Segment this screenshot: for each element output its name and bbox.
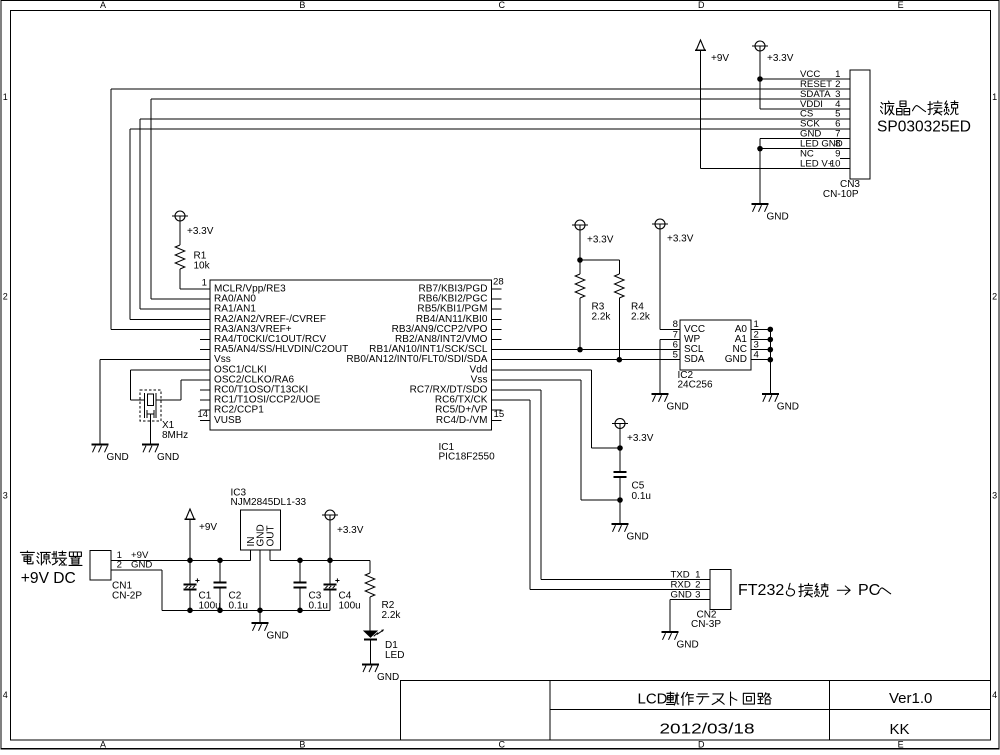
CN3 pin number 10 bbox=[830, 158, 841, 169]
wire CN3 pin10 segment bbox=[840, 168, 850, 170]
wire Vdd net bbox=[492, 370, 621, 448]
wire R2 top bbox=[369, 560, 371, 573]
crystal X1 left plate bbox=[144, 393, 146, 407]
CN3 pin number 6 bbox=[835, 119, 840, 130]
svg-text:10: 10 bbox=[830, 158, 841, 169]
junction dot gnd rail C3 bbox=[297, 608, 303, 614]
label C5 value 0.1u bbox=[632, 491, 651, 502]
label R2 value 2.2k bbox=[382, 610, 402, 621]
ground symbol below C5 bbox=[612, 524, 629, 532]
svg-text:VUSB: VUSB bbox=[214, 415, 242, 426]
svg-text:2.2k: 2.2k bbox=[382, 610, 402, 621]
connector CN3 body bbox=[850, 70, 870, 179]
svg-text:GND: GND bbox=[131, 560, 152, 571]
CN3 pin name LED GND bbox=[800, 139, 843, 150]
IC3 rotated pin label OUT bbox=[266, 525, 277, 546]
CN3 reference label bbox=[840, 179, 860, 190]
title version Ver1.0 bbox=[889, 690, 932, 707]
CN3 pin9 NC stub bbox=[840, 158, 850, 160]
frame column label A bottom bbox=[100, 739, 106, 749]
CN3 pin name GND bbox=[800, 129, 821, 140]
wire +9V to CN3 pin10 vertical bbox=[700, 50, 702, 168]
label D1 bbox=[385, 640, 398, 651]
junction dot +9V rail C1 bbox=[187, 558, 193, 564]
crystal X1 body bbox=[147, 394, 153, 406]
frame column label E bottom bbox=[898, 739, 904, 749]
capacitor C2 bbox=[213, 560, 226, 610]
ground symbol below IC2 WP bbox=[652, 394, 669, 402]
CN3 pin number 9 bbox=[835, 149, 840, 160]
CN3 pin name SCK bbox=[800, 119, 820, 130]
label +3.3V at R3 bbox=[587, 235, 614, 246]
IC1 left pin stub row 11 bbox=[200, 389, 210, 391]
title text LCD animation test circuit bbox=[638, 691, 772, 708]
power symbol +3.3V at C5 bbox=[612, 419, 628, 429]
svg-text:2: 2 bbox=[3, 291, 8, 301]
wire LED to gnd bbox=[370, 639, 372, 663]
svg-text:CN-2P: CN-2P bbox=[112, 590, 142, 601]
junction dot bus A1 bbox=[768, 337, 774, 343]
label X1 value 8MHz bbox=[162, 430, 188, 441]
svg-text:+3.3V: +3.3V bbox=[667, 234, 694, 245]
IC1 value label PIC18F2550 bbox=[439, 452, 496, 463]
frame column label A top bbox=[100, 0, 106, 10]
IC1 right pin stub RB4/AN11/KBI0 bbox=[492, 318, 502, 320]
wire R4 bottom to SDA bbox=[618, 298, 620, 360]
wire +9V symbol down bbox=[189, 519, 191, 560]
IC1 pin number 28 bbox=[493, 277, 504, 288]
connector CN1 body bbox=[90, 551, 111, 581]
IC3 reference label bbox=[231, 487, 247, 498]
crystal X1 right plate bbox=[155, 393, 157, 407]
IC2 pin label NC bbox=[733, 344, 747, 355]
CN3 pin number 2 bbox=[835, 79, 840, 90]
IC1 right pin stub RB5/KBI1/PGM bbox=[492, 308, 502, 310]
svg-text:PC: PC bbox=[858, 582, 880, 599]
IC2 pin number 8 bbox=[673, 319, 678, 330]
svg-text:2.2k: 2.2k bbox=[631, 312, 651, 323]
wire IC2 WP to gnd bbox=[660, 340, 680, 394]
svg-text:2: 2 bbox=[992, 291, 997, 301]
svg-text:2: 2 bbox=[117, 560, 122, 571]
IC1 reference label bbox=[439, 442, 455, 453]
label R2 bbox=[382, 600, 395, 611]
svg-text:0.1u: 0.1u bbox=[632, 491, 651, 502]
CN3 pin number 3 bbox=[835, 89, 840, 100]
CN3 pin name VDDI bbox=[800, 99, 823, 110]
wire +3.3V symbol down bbox=[329, 520, 331, 560]
CN2 pin name TXD bbox=[671, 569, 690, 580]
IC2 pin number 3 bbox=[754, 339, 759, 350]
IC1 pin label Vdd bbox=[470, 364, 488, 375]
svg-text:RA5/AN4/SS/HLVDIN/C2OUT: RA5/AN4/SS/HLVDIN/C2OUT bbox=[214, 344, 348, 355]
frame row label 2 left bbox=[3, 291, 8, 301]
svg-text:GND: GND bbox=[667, 402, 689, 413]
IC1 pin label RA3/AN3/VREF+ bbox=[214, 324, 292, 335]
svg-text:Ver1.0: Ver1.0 bbox=[889, 690, 932, 707]
ground symbol below D1 bbox=[362, 664, 379, 672]
IC3 rotated pin label IN bbox=[246, 537, 257, 547]
IC IC2 body 24C256 bbox=[680, 320, 751, 370]
svg-text:C: C bbox=[499, 0, 506, 10]
IC2 pin label SDA bbox=[684, 354, 705, 365]
wire CN3 pin1 VCC bbox=[760, 78, 850, 80]
IC1 right pin stub RB3/AN9/CCP2/VPO bbox=[492, 328, 502, 330]
svg-text:4: 4 bbox=[754, 350, 760, 361]
title block divider vertical 1 bbox=[549, 681, 551, 741]
wire branch to R4 bbox=[580, 260, 619, 274]
FT232 connection note bbox=[738, 582, 891, 599]
wire CN3 gnd vertical bbox=[759, 139, 761, 203]
frame row label 2 right bbox=[992, 291, 997, 301]
svg-text:GND: GND bbox=[377, 672, 399, 683]
connector CN2 body bbox=[710, 570, 731, 610]
svg-text:E: E bbox=[898, 739, 904, 749]
IC1 pin label RC1/T1OSI/CCP2/UOE bbox=[214, 395, 321, 406]
IC1 right pin stub RC5/D+/VP bbox=[492, 409, 502, 411]
CN2 pin name RXD bbox=[671, 579, 691, 590]
svg-text:NJM2845DL1-33: NJM2845DL1-33 bbox=[231, 497, 307, 508]
frame column label C bottom bbox=[499, 739, 506, 749]
wire IC2 NC to bus bbox=[751, 349, 770, 351]
label R3 bbox=[592, 302, 605, 313]
label C3 bbox=[309, 591, 322, 602]
wire RESET net bbox=[111, 89, 850, 329]
junction dot SCL/R3 bbox=[577, 347, 583, 353]
IC1 pin label VUSB bbox=[214, 415, 242, 426]
junction dot gnd rail C2 bbox=[217, 608, 223, 614]
label GND below IC3 bbox=[267, 631, 289, 642]
svg-text:+3.3V: +3.3V bbox=[337, 525, 364, 536]
wire IC2 A0 to bus bbox=[751, 328, 770, 330]
label GND Vss left bbox=[107, 452, 129, 463]
IC IC3 body NJM2845 regulator bbox=[241, 510, 281, 550]
IC2 pin label WP bbox=[684, 334, 700, 345]
IC2 pin number 4 bbox=[754, 350, 760, 361]
power symbol +3.3V at R3 bbox=[572, 220, 588, 230]
IC1 pin label RC5/D+/VP bbox=[435, 405, 488, 416]
IC1 right pin stub RB7/KBI3/PGD bbox=[492, 288, 502, 290]
svg-text:28: 28 bbox=[493, 277, 504, 288]
frame row label 4 left bbox=[3, 690, 8, 700]
IC1 right pin stub RB6/KBI2/PGC bbox=[492, 298, 502, 300]
IC1 pin label RB1/AN10/INT1/SCK/SCL bbox=[369, 344, 488, 355]
label C3 value 0.1u bbox=[309, 600, 328, 611]
wire SDA net bbox=[492, 359, 681, 361]
frame column label E top bbox=[898, 0, 904, 10]
svg-text:3: 3 bbox=[695, 589, 700, 600]
svg-text:8MHz: 8MHz bbox=[162, 430, 188, 441]
IC1 pin label RC2/CCP1 bbox=[214, 405, 264, 416]
wire ground rail bbox=[162, 609, 330, 611]
LCD part number SP030325ED bbox=[877, 119, 971, 136]
IC2 pin number 5 bbox=[673, 350, 678, 361]
junction dot Vss node bbox=[617, 497, 623, 503]
CN3 pin number 4 bbox=[835, 99, 841, 110]
IC1 pin label RC0/T1OSO/T13CKI bbox=[214, 385, 308, 396]
junction dot SDA/R4 bbox=[617, 357, 623, 363]
frame column label B bottom bbox=[299, 739, 305, 749]
svg-text:GND: GND bbox=[725, 354, 747, 365]
label D1 value LED bbox=[385, 650, 404, 661]
power source note line1 bbox=[20, 551, 82, 565]
IC1 pin label RB5/KBI1/PGM bbox=[417, 304, 487, 315]
svg-text:CN-10P: CN-10P bbox=[823, 189, 859, 200]
svg-text:LED: LED bbox=[385, 650, 404, 661]
wire Vss right net bbox=[492, 380, 621, 500]
CN3 pin number 7 bbox=[835, 129, 840, 140]
svg-text:E: E bbox=[898, 0, 904, 10]
junction dot rail C2 bbox=[217, 558, 223, 564]
wire R3 bottom to SCL bbox=[579, 298, 581, 350]
ground symbol below CN2 bbox=[662, 632, 679, 640]
capacitor C4 electrolytic bbox=[323, 560, 339, 610]
svg-text:5: 5 bbox=[673, 350, 678, 361]
frame row label 4 right bbox=[992, 690, 997, 700]
svg-text:LED V+: LED V+ bbox=[800, 158, 834, 169]
crystal X1 lower cap left bbox=[145, 407, 148, 419]
IC1 pin label Vss bbox=[471, 374, 488, 385]
CN1 type label CN-2P bbox=[112, 590, 142, 601]
power symbol +9V top bbox=[695, 40, 706, 50]
svg-text:SP030325ED: SP030325ED bbox=[877, 119, 971, 136]
IC1 left pin stub row 13 bbox=[200, 409, 210, 411]
diode D1 LED bbox=[364, 629, 384, 639]
frame row label 1 left bbox=[3, 92, 8, 102]
resistor R2 bbox=[365, 573, 375, 597]
IC3 pin IN wire bbox=[250, 550, 252, 560]
wire OSC2 bbox=[156, 380, 210, 400]
label +9V at C1 bbox=[199, 522, 217, 533]
svg-text:GND: GND bbox=[157, 452, 179, 463]
IC1 left pin stub row 7 bbox=[200, 349, 210, 351]
CN3 pin name CS bbox=[800, 109, 813, 120]
label X1 bbox=[162, 420, 175, 431]
junction dot VCC pin1 bbox=[757, 76, 763, 82]
label R4 bbox=[631, 302, 644, 313]
IC1 left pin stub row 14 bbox=[200, 419, 210, 421]
wire R2 to LED bbox=[369, 597, 371, 631]
label GND below IC2 WP bbox=[667, 402, 689, 413]
title date 2012/03/18 bbox=[660, 720, 755, 737]
power symbol +3.3V at IC2 bbox=[652, 219, 668, 229]
IC2 pin label A1 bbox=[735, 334, 748, 345]
CN2 pin number 1 bbox=[695, 569, 700, 580]
junction dot Vdd node bbox=[617, 445, 623, 451]
svg-text:+3.3V: +3.3V bbox=[767, 53, 794, 64]
wire IC3 gnd to symbol bbox=[259, 610, 261, 622]
IC1 left pin stub row 12 bbox=[200, 399, 210, 401]
IC1 pin label RB4/AN11/KBI0 bbox=[416, 314, 488, 325]
CN3 pin name SDATA bbox=[800, 89, 831, 100]
IC3 pin OUT wire bbox=[269, 550, 271, 560]
wire CN3 pin8 LED GND bbox=[760, 148, 850, 150]
wire IC2 right bus vertical bbox=[769, 329, 771, 393]
wire +3.3V to IC2 VCC bbox=[660, 229, 680, 329]
svg-text:+3.3V: +3.3V bbox=[187, 226, 214, 237]
capacitor C5 bbox=[613, 472, 626, 477]
IC2 pin number 2 bbox=[754, 329, 759, 340]
label C4 bbox=[339, 591, 352, 602]
IC1 pin label OSC1/CLKI bbox=[214, 364, 267, 375]
title block box bbox=[401, 681, 991, 741]
crystal X1 center tap bbox=[147, 414, 154, 444]
svg-text:GND: GND bbox=[677, 640, 699, 651]
label R1 bbox=[194, 251, 207, 262]
IC1 pin label RA0/AN0 bbox=[214, 294, 256, 305]
ground symbol below CN3 bbox=[752, 204, 769, 212]
svg-text:100u: 100u bbox=[339, 600, 361, 611]
IC1 pin number 14 bbox=[197, 409, 208, 420]
svg-text:4: 4 bbox=[992, 690, 997, 700]
svg-text:SDA: SDA bbox=[684, 354, 705, 365]
power source note line2 bbox=[21, 570, 76, 587]
IC1 pin label RB0/AN12/INT0/FLT0/SDI/SDA bbox=[346, 354, 487, 365]
svg-text:0.1u: 0.1u bbox=[229, 600, 248, 611]
label +3.3V at C4 bbox=[337, 525, 364, 536]
svg-text:LCD: LCD bbox=[638, 691, 668, 708]
ground symbol Vss left bbox=[92, 445, 109, 453]
label +3.3V at R1 bbox=[187, 226, 214, 237]
svg-text:+9V DC: +9V DC bbox=[21, 570, 76, 587]
label R3 value 2.2k bbox=[592, 312, 612, 323]
LCD connection note bbox=[881, 101, 959, 115]
svg-text:1: 1 bbox=[3, 92, 8, 102]
CN3 pin name RESET bbox=[800, 79, 832, 90]
svg-text:0.1u: 0.1u bbox=[309, 600, 328, 611]
resistor R1 bbox=[175, 245, 185, 269]
IC3 rotated pin label GND bbox=[256, 524, 267, 546]
IC1 pin label Vss bbox=[214, 354, 231, 365]
IC1 pin label RB2/AN8/INT2/VMO bbox=[395, 334, 488, 345]
wire CN1 pin1 +9V rail bbox=[111, 559, 251, 561]
svg-text:C5: C5 bbox=[632, 481, 645, 492]
wire SDATA net bbox=[151, 99, 850, 299]
CN2 reference label bbox=[696, 609, 716, 620]
wire RC7 to TXD bbox=[492, 390, 711, 580]
junction dot R3/R4 branch bbox=[577, 257, 583, 263]
CN2 pin number 3 bbox=[695, 589, 700, 600]
IC1 pin label MCLR/Vpp/RE3 bbox=[214, 284, 286, 295]
title author KK bbox=[890, 721, 910, 738]
label C1 value 100u bbox=[199, 600, 221, 611]
wire R1 to MCLR bbox=[180, 269, 210, 289]
IC2 pin number 7 bbox=[673, 329, 678, 340]
label GND IC2 right bbox=[777, 402, 799, 413]
IC2 reference label bbox=[678, 370, 694, 381]
svg-text:RC4/D-/VM: RC4/D-/VM bbox=[436, 415, 488, 426]
IC2 pin label GND bbox=[725, 354, 747, 365]
svg-text:GND: GND bbox=[267, 631, 289, 642]
svg-text:2.2k: 2.2k bbox=[592, 312, 612, 323]
svg-text:A: A bbox=[100, 0, 106, 10]
resistor R3 bbox=[575, 274, 585, 298]
CN1 pin number 2 bbox=[117, 560, 122, 571]
svg-text:GND: GND bbox=[767, 212, 789, 223]
svg-text:B: B bbox=[299, 0, 305, 10]
junction dot gnd rail C1 bbox=[187, 608, 193, 614]
wire R3 top bbox=[579, 230, 581, 274]
CN3 pin number 8 bbox=[835, 139, 840, 150]
wire SCK net bbox=[130, 129, 850, 320]
IC1 pin label RC6/TX/CK bbox=[435, 395, 488, 406]
junction dot rail C3 bbox=[297, 558, 303, 564]
ground symbol IC2 right bbox=[762, 394, 779, 402]
frame column label D top bbox=[698, 0, 705, 10]
capacitor C1 electrolytic bbox=[183, 560, 199, 610]
IC3 pin GND wire bbox=[259, 550, 261, 610]
svg-text:A: A bbox=[100, 739, 106, 749]
crystal X1 dashed outline bbox=[140, 390, 161, 421]
power symbol +3.3V at C4 bbox=[322, 510, 338, 520]
wire CN3 pin7 GND bbox=[760, 138, 850, 140]
junction dot IC3 gnd bbox=[257, 608, 263, 614]
svg-text:D: D bbox=[698, 0, 705, 10]
label GND below C5 bbox=[627, 532, 649, 543]
junction dot LED GND pin8 bbox=[757, 146, 763, 152]
label GND below CN3 bbox=[767, 212, 789, 223]
label C4 value 100u bbox=[339, 600, 361, 611]
svg-text:RB0/AN12/INT0/FLT0/SDI/SDA: RB0/AN12/INT0/FLT0/SDI/SDA bbox=[346, 354, 487, 365]
IC1 pin label RA2/AN2/VREF-/CVREF bbox=[214, 314, 326, 325]
label GND below D1 bbox=[377, 672, 399, 683]
crystal X1 lower cap right bbox=[154, 407, 156, 419]
wire SCL net bbox=[492, 349, 681, 351]
wire IC2 A1 to bus bbox=[751, 339, 770, 341]
frame column label D bottom bbox=[698, 739, 705, 749]
IC2 pin number 6 bbox=[673, 339, 678, 350]
wire CN3 pin4 VDDI bbox=[760, 108, 850, 110]
wire C5 top bbox=[619, 429, 621, 473]
junction dot bus GND bbox=[768, 357, 774, 363]
power symbol +3.3V at R1 bbox=[172, 211, 188, 221]
svg-text:OUT: OUT bbox=[266, 525, 277, 546]
IC1 pin label RB7/KBI3/PGD bbox=[419, 284, 488, 295]
IC1 pin label RA5/AN4/SS/HLVDIN/C2OUT bbox=[214, 344, 348, 355]
frame row label 3 left bbox=[3, 491, 8, 501]
wire IC2 GND to bus bbox=[751, 359, 770, 361]
label GND below X1 bbox=[157, 452, 179, 463]
IC1 pin label OSC2/CLKO/RA6 bbox=[214, 374, 295, 385]
svg-text:1: 1 bbox=[992, 92, 997, 102]
wire C5 bottom bbox=[619, 478, 621, 523]
svg-text:4: 4 bbox=[3, 690, 8, 700]
CN3 pin number 5 bbox=[835, 109, 840, 120]
wire +9V to CN3 pin10 horizontal bbox=[701, 168, 851, 170]
CN1 pin name +9V bbox=[131, 550, 149, 561]
svg-text:B: B bbox=[299, 739, 305, 749]
frame column label C top bbox=[499, 0, 506, 10]
IC1 left pin stub row 6 bbox=[200, 339, 210, 341]
IC2 pin label SCL bbox=[684, 344, 704, 355]
CN3 pin name LED V+ bbox=[800, 158, 834, 169]
label C2 value 0.1u bbox=[229, 600, 248, 611]
frame row label 1 right bbox=[992, 92, 997, 102]
wire +3.3V rail right of IC3 bbox=[270, 559, 370, 561]
wire +3.3V vertical to VDDI bbox=[759, 46, 761, 109]
wire CN2 pin3 GND bbox=[670, 600, 710, 632]
power symbol +9V at C1 bbox=[184, 509, 195, 519]
svg-text:+9V: +9V bbox=[199, 522, 217, 533]
svg-text:D: D bbox=[698, 739, 705, 749]
IC1 pin number 1 bbox=[202, 278, 207, 289]
power symbol +3.3V top bbox=[752, 41, 768, 51]
IC1 pin label RC7/RX/DT/SDO bbox=[410, 385, 488, 396]
CN2 pin name GND bbox=[671, 589, 692, 600]
svg-text:PIC18F2550: PIC18F2550 bbox=[439, 452, 496, 463]
title block divider vertical 2 bbox=[829, 681, 831, 741]
label +9V top bbox=[711, 53, 729, 64]
